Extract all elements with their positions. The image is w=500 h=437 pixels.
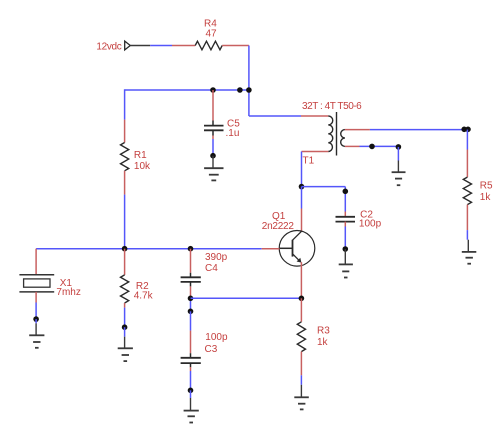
wire C3 top lead bbox=[190, 311, 192, 357]
svg-text:.1u: .1u bbox=[226, 128, 240, 139]
junction secondary top a bbox=[461, 127, 467, 133]
junction C2 top bbox=[343, 189, 349, 195]
svg-text:R3: R3 bbox=[317, 326, 330, 337]
wire X1 bottom lead bbox=[35, 292, 37, 319]
ground below C5 bbox=[204, 156, 223, 181]
resistor R5 bbox=[463, 177, 471, 205]
wire C5 bottom lead bbox=[212, 130, 214, 155]
svg-text:1k: 1k bbox=[480, 192, 492, 203]
svg-text:7mhz: 7mhz bbox=[56, 287, 80, 298]
node emitter junction bbox=[299, 296, 305, 302]
transistor Q1 bbox=[279, 231, 315, 267]
node C3 ground bbox=[188, 388, 194, 394]
capacitor C3 bbox=[181, 358, 201, 363]
node X1 ground bbox=[33, 316, 39, 322]
wire junction to C2 bbox=[302, 187, 346, 216]
wire R2 bottom lead bbox=[124, 303, 126, 327]
capacitor C5 bbox=[204, 126, 224, 131]
wire C2 bottom lead bbox=[344, 222, 346, 249]
wire C4 bottom lead bbox=[190, 282, 192, 311]
wire R5 top lead bbox=[466, 130, 468, 178]
transformer T1 primary winding bbox=[328, 116, 332, 152]
wire base rail bbox=[36, 248, 279, 250]
node C2 ground bbox=[343, 246, 349, 252]
ground below C3 bbox=[184, 390, 199, 422]
wire C5 top lead bbox=[212, 90, 214, 125]
svg-text:R5: R5 bbox=[480, 180, 493, 191]
svg-text:4.7k: 4.7k bbox=[134, 291, 154, 302]
transformer T1 secondary winding bbox=[341, 130, 345, 147]
junction secondary ground corner bbox=[396, 144, 402, 150]
ground below transformer secondary bbox=[392, 161, 406, 186]
resistor R2 bbox=[121, 275, 129, 303]
wire emitter lead bbox=[300, 262, 302, 298]
wire port to R4 bbox=[130, 45, 195, 47]
svg-text:T1: T1 bbox=[303, 156, 315, 167]
wire R3 bottom lead bbox=[300, 352, 302, 385]
capacitor C2 bbox=[336, 217, 356, 222]
ground below R3 bbox=[294, 385, 309, 410]
svg-text:1k: 1k bbox=[317, 337, 329, 348]
svg-text:47: 47 bbox=[206, 28, 218, 39]
port 12vdc bbox=[125, 41, 131, 50]
wire rail down to R1 bbox=[124, 89, 126, 142]
svg-text:R1: R1 bbox=[134, 150, 147, 161]
svg-text:100p: 100p bbox=[359, 219, 382, 230]
wire R2 top lead bbox=[124, 249, 126, 275]
transformer T1 core bbox=[336, 112, 338, 156]
wire to transformer primary top bbox=[249, 115, 328, 117]
ground below R2 bbox=[118, 327, 133, 361]
node T1 bottom junction bbox=[299, 184, 305, 190]
crystal X1 bbox=[19, 275, 54, 292]
junction on rail at C5 bbox=[210, 87, 216, 93]
ground below C2 bbox=[339, 249, 353, 278]
junction base rail at R1/R2 bbox=[122, 246, 128, 252]
resistor R3 bbox=[297, 322, 305, 352]
wire vertical down from R4 bbox=[248, 46, 250, 117]
junction secondary top b bbox=[465, 127, 471, 133]
svg-text:10k: 10k bbox=[134, 161, 151, 172]
svg-text:100p: 100p bbox=[205, 332, 228, 343]
node C5 ground bbox=[210, 153, 216, 159]
wire R3 top lead bbox=[300, 298, 302, 322]
wire R4 to corner bbox=[222, 45, 249, 47]
junction on rail left of corner bbox=[237, 87, 243, 93]
svg-text:12vdc: 12vdc bbox=[96, 41, 121, 52]
wire collector lead bbox=[301, 187, 303, 232]
resistor R1 bbox=[121, 143, 129, 171]
junction on rail at corner bbox=[246, 87, 252, 93]
wire secondary bottom bbox=[345, 145, 399, 147]
wire X1 top lead bbox=[35, 249, 37, 275]
wire R5 bottom lead bbox=[466, 205, 468, 240]
node R2 ground bbox=[122, 324, 128, 330]
ground below X1 bbox=[29, 319, 44, 348]
junction base rail at C4 bbox=[188, 246, 194, 252]
wire C3 bottom lead bbox=[190, 363, 192, 390]
wire C4 top lead bbox=[190, 249, 192, 278]
node C4 emitter wire bbox=[188, 296, 194, 302]
svg-text:390p: 390p bbox=[205, 252, 228, 263]
wire upper rail bbox=[125, 89, 249, 91]
svg-text:C4: C4 bbox=[205, 263, 218, 274]
wire R1 to base rail bbox=[124, 171, 126, 249]
svg-text:32T : 4T T50-6: 32T : 4T T50-6 bbox=[302, 101, 362, 112]
svg-text:2n2222: 2n2222 bbox=[262, 221, 295, 232]
wire secondary top bbox=[345, 129, 468, 131]
ground below R5 bbox=[462, 240, 477, 264]
resistor R4 bbox=[195, 41, 222, 50]
capacitor C4 bbox=[181, 277, 201, 282]
wire secondary to ground bbox=[397, 147, 399, 161]
wire C4 to emitter bbox=[191, 297, 302, 299]
junction C3 top bbox=[188, 309, 194, 315]
svg-text:C3: C3 bbox=[205, 344, 218, 355]
wire primary bottom bbox=[302, 152, 329, 187]
junction secondary bottom bbox=[369, 144, 375, 150]
